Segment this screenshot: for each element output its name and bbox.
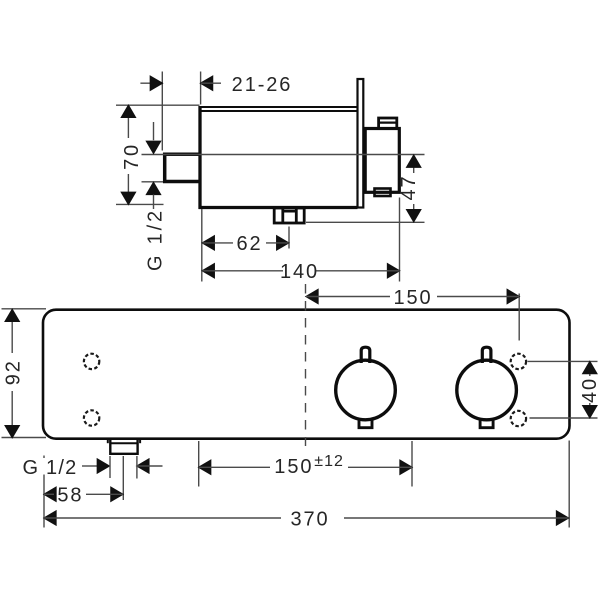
centre line (dashed) bbox=[305, 284, 307, 446]
hex fitting under body bbox=[274, 208, 304, 223]
dimension 370 bbox=[44, 441, 569, 531]
handle bottom clip bbox=[375, 189, 391, 197]
svg-text:370: 370 bbox=[290, 508, 329, 530]
svg-text:G 1/2: G 1/2 bbox=[23, 457, 78, 479]
centre reference line through outlet top bbox=[142, 154, 425, 156]
svg-text:G 1/2: G 1/2 bbox=[145, 208, 167, 271]
svg-text:62: 62 bbox=[236, 233, 262, 255]
screw holes right (dashed circles) bbox=[511, 354, 526, 427]
svg-text:150: 150 bbox=[393, 287, 432, 309]
svg-text:40: 40 bbox=[579, 377, 601, 403]
front body bbox=[43, 310, 570, 439]
dimension 150 (top) bbox=[306, 287, 519, 341]
svg-text:58: 58 bbox=[57, 485, 83, 507]
left knob bbox=[336, 347, 396, 428]
svg-text:±12: ±12 bbox=[314, 453, 344, 470]
dimension 140 bbox=[202, 198, 399, 284]
bottom outlet tab (front view) bbox=[108, 440, 140, 454]
svg-text:150: 150 bbox=[274, 456, 313, 478]
extension line bottom of hex fitting bbox=[306, 221, 425, 223]
body bottom edge bbox=[199, 206, 358, 209]
svg-text:47: 47 bbox=[398, 174, 420, 200]
dimension 92 bbox=[2, 309, 47, 438]
wall plate bbox=[358, 79, 364, 208]
body top double line bbox=[200, 107, 358, 111]
dimension 40 bbox=[528, 361, 601, 418]
dimension 62 bbox=[202, 209, 289, 282]
handle body bbox=[365, 129, 399, 193]
body left edge bbox=[198, 106, 201, 209]
dimension 150±12 bbox=[199, 441, 412, 487]
dimension 58 bbox=[44, 456, 123, 528]
shower outlet stub (left) bbox=[165, 154, 200, 181]
screw holes left (dashed circles) bbox=[84, 354, 99, 426]
svg-text:21-26: 21-26 bbox=[232, 74, 293, 96]
label G 1/2 (front) with leader bbox=[23, 456, 163, 500]
right knob bbox=[457, 347, 517, 428]
handle step (small) bbox=[379, 118, 397, 129]
svg-text:140: 140 bbox=[280, 261, 319, 283]
dimension 47 bbox=[398, 155, 421, 222]
svg-text:92: 92 bbox=[3, 359, 25, 385]
dimension 70 bbox=[116, 105, 200, 204]
svg-text:70: 70 bbox=[121, 142, 143, 170]
dimension G 1/2 (side view) bbox=[142, 122, 167, 271]
dimension 21-26 bbox=[140, 72, 292, 151]
